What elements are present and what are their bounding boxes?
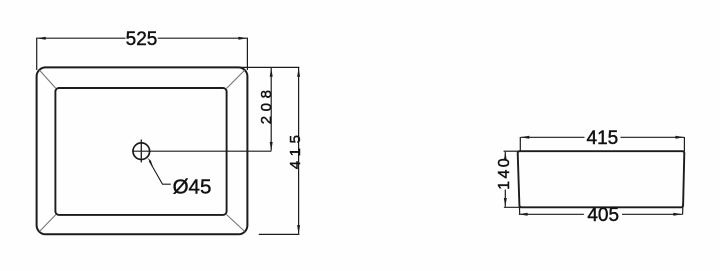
outer rim (basin top view) [37,67,248,234]
corner bevel bottom-right [227,215,245,232]
corner bevel bottom-left [40,215,56,232]
svg-text:Ø45: Ø45 [173,175,212,198]
dimension 525 line right segment [158,37,247,39]
dimension 525 extension line left [36,38,38,70]
dimension 140 line upper segment [504,152,506,159]
dimension 415 line (left view) [298,68,300,234]
top extension line for 208 and 415 dimensions [237,66,299,68]
side view top edge extension to left [504,150,519,152]
side view body outline [518,151,685,207]
svg-text:525: 525 [126,29,158,50]
dimension 525 extension line right [246,38,248,70]
dimension 208 arrow down [270,142,273,151]
dimension 415 arrow left (side view) [520,136,529,139]
svg-text:415: 415 [587,128,619,149]
svg-text:415: 415 [287,130,304,169]
drain hole circle [133,143,150,160]
svg-text:405: 405 [587,205,619,226]
dimension 415 extension line right (side view) [683,137,685,151]
dimension 525 line left segment [37,37,126,39]
dimension 140 line lower segment [504,190,506,207]
dimension 405 extension line left [518,204,520,215]
dimension 405 line right segment [622,213,682,215]
side view bottom edge extension to left [504,206,521,208]
dimension 405 arrow right [673,213,682,216]
svg-text:140: 140 [496,156,513,190]
dimension 208 line [270,68,272,151]
dimension 405 line left segment [519,213,584,215]
dimension 415 extension line left (side view) [519,137,521,151]
leader arrowhead [148,158,154,167]
svg-text:208: 208 [258,85,275,124]
dimension 140 arrow up [504,152,507,161]
leader line for drain diameter [149,161,171,184]
dimension 405 arrow left [519,213,528,216]
drain horizontal centerline extending to 208 dimension [132,150,271,152]
dimension 415 line right segment (side view) [621,136,685,138]
dimension 415 line left segment (side view) [521,136,585,138]
corner bevel top-left [40,70,56,88]
dimension 415 arrow down [297,225,300,234]
dimension 415 arrow right (side view) [675,136,684,139]
dimension 415 arrow up [297,68,300,77]
dimension 208 arrow up [270,68,273,77]
drain crosshair vertical centerline [140,140,142,163]
dimension 140 arrow down [504,198,507,207]
dimension 525 arrow left [37,37,46,40]
bottom extension line for 415 dimension [259,233,300,235]
dimension 525 arrow right [238,37,247,40]
inner bowl (basin top view) [55,88,226,215]
corner bevel top-right [227,70,245,88]
dimension 405 extension line right [682,204,684,215]
